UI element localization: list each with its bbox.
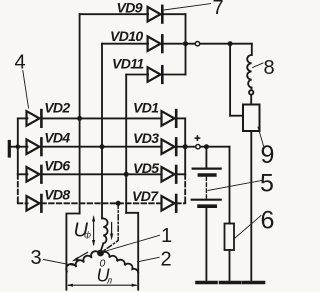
stator frame right wall <box>126 213 138 290</box>
svg-text:8: 8 <box>264 57 275 79</box>
svg-text:VD10: VD10 <box>110 28 143 44</box>
diode VD10 <box>148 35 163 52</box>
svg-text:л: л <box>106 276 112 286</box>
svg-text:VD3: VD3 <box>133 130 159 146</box>
wire A vertical phase 1 <box>79 14 81 213</box>
dimension arrow U line <box>67 284 138 287</box>
current arrow beside center coil <box>110 223 113 241</box>
junction dot wireB row2 <box>100 144 105 149</box>
wire VD9 row <box>80 13 148 15</box>
current arrow left coil <box>72 252 88 261</box>
svg-text:3: 3 <box>31 247 42 269</box>
resistor R 6 <box>225 224 235 251</box>
wire battery top <box>205 147 207 169</box>
connector circle below coil 8 <box>249 90 253 94</box>
ground bar battery <box>197 281 216 285</box>
svg-text:5: 5 <box>260 170 274 198</box>
diode VD1 <box>162 110 177 127</box>
junction dot top line regulator drop <box>228 41 233 46</box>
svg-text:VD4: VD4 <box>44 129 70 145</box>
leader line 1 <box>103 235 160 252</box>
wire excitation bus vertical <box>185 14 187 74</box>
svg-text:VD7: VD7 <box>132 188 159 204</box>
junction dot plus bus row2 <box>183 144 188 149</box>
leader line 5 <box>208 181 262 191</box>
svg-text:VD8: VD8 <box>44 186 70 202</box>
junction dot neutral row4 <box>116 201 121 206</box>
phase winding left coil <box>66 251 99 271</box>
svg-text:2: 2 <box>161 249 172 271</box>
diode VD2 <box>27 110 42 127</box>
diode VD11 <box>148 66 163 83</box>
connector circle plus output <box>196 145 200 149</box>
wire row 2 VD4-VD3 <box>18 146 28 148</box>
ground bar regulator <box>243 281 263 285</box>
svg-text:VD11: VD11 <box>112 56 144 72</box>
leader line 7 <box>164 4 211 10</box>
leader line 6 <box>234 216 261 240</box>
svg-text:9: 9 <box>261 141 275 169</box>
junction dot left bus terminal <box>15 144 20 149</box>
leader line 8 <box>253 63 263 68</box>
svg-text:VD2: VD2 <box>44 100 70 116</box>
wire plus bus dashed part <box>184 174 186 203</box>
leader line 4 <box>23 71 29 109</box>
wire resistor feed <box>229 147 231 224</box>
wire VD11 row <box>126 74 148 76</box>
svg-text:1: 1 <box>161 225 172 247</box>
ground bar resistor <box>221 281 240 285</box>
wire row 4 dashed VD8-VD7 <box>18 202 28 204</box>
connector circle top line <box>195 42 199 46</box>
battery GB 5 <box>193 168 221 170</box>
diode VD9 <box>148 6 163 23</box>
wire row 3 VD6-VD5 <box>18 173 28 175</box>
wire plus bus <box>184 118 186 174</box>
wire left bus dashed part <box>17 174 19 203</box>
terminal input <box>8 142 11 157</box>
svg-text:7: 7 <box>213 0 224 19</box>
star point node 0 <box>97 250 104 257</box>
svg-text:VD1: VD1 <box>133 100 159 116</box>
svg-text:ф: ф <box>84 231 91 240</box>
regulator U 9 box <box>243 105 260 132</box>
phase winding right coil <box>102 252 139 273</box>
svg-text:VD6: VD6 <box>44 158 70 174</box>
wire VD10 row <box>102 43 148 45</box>
phase winding center coil <box>102 218 107 244</box>
inductor L 8 excitation winding <box>247 55 251 88</box>
wire row 1 VD2-VD1 <box>18 117 28 119</box>
wire B vertical phase 2 <box>101 44 103 219</box>
wire top line circle to reg and coil <box>200 43 252 45</box>
junction dot excitation bus VD10 <box>183 41 188 46</box>
junction dot wireC row3 <box>124 172 129 177</box>
svg-text:VD5: VD5 <box>133 160 159 176</box>
diode VD8 <box>27 195 42 212</box>
junction dot battery drop <box>204 144 209 149</box>
wire coil 8 drop <box>251 44 253 55</box>
dimension arrow U phase <box>92 215 95 246</box>
wire regulator left feed <box>229 44 231 116</box>
leader line 2 <box>138 257 160 262</box>
diode VD7 <box>162 195 177 212</box>
wire row2 extension to battery and resistor <box>185 146 196 148</box>
svg-text:6: 6 <box>261 207 275 235</box>
leader line 9 <box>258 127 264 146</box>
diode VD3 <box>162 138 177 155</box>
stator frame left wall <box>66 214 79 290</box>
diode VD6 <box>27 166 42 183</box>
diode VD5 <box>162 166 177 183</box>
wire regulator output <box>250 131 252 280</box>
neutral dash-dot wire <box>101 203 119 253</box>
label plus sign <box>195 135 201 141</box>
diode VD4 <box>27 138 42 155</box>
wire left bus <box>17 118 19 174</box>
svg-text:4: 4 <box>15 52 26 74</box>
wire C vertical phase 3 <box>125 75 127 213</box>
svg-text:VD9: VD9 <box>117 0 143 15</box>
leader line 3 <box>44 260 77 266</box>
junction dot wireA row1 <box>77 116 82 121</box>
